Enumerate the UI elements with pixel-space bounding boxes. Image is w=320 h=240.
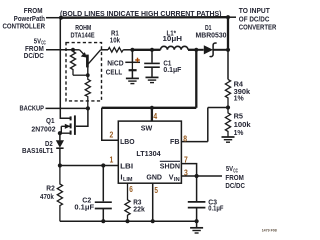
- wire FB riser: [207, 108, 209, 142]
- wire drain drop from top rail to Q1: [60, 18, 70, 119]
- transistor Q DTA144E PNP: [73, 50, 101, 75]
- inductor L1: [161, 46, 189, 49]
- capacitor C1: [144, 50, 160, 77]
- label + battery polarity: [135, 58, 140, 63]
- diode D2: [56, 133, 64, 165]
- node base junction: [86, 73, 90, 77]
- svg-text:0.1μF: 0.1μF: [74, 202, 94, 211]
- wire LBO riser: [102, 108, 119, 140]
- node junction top-left: [59, 16, 63, 20]
- wire pin3 VIN: [181, 175, 222, 177]
- wire bottom rail: [60, 220, 197, 222]
- wire pin5 GND drop: [152, 183, 154, 221]
- svg-text:LBO: LBO: [120, 137, 135, 146]
- node BACKUP junction: [86, 106, 90, 110]
- wire rail to R4: [227, 50, 229, 80]
- capacitor C2: [95, 166, 112, 222]
- svg-text:0.1μF: 0.1μF: [163, 65, 181, 74]
- diode D1 schottky: [196, 43, 228, 57]
- svg-text:DC/DC: DC/DC: [24, 51, 44, 60]
- node C3 bottom / rail end: [195, 219, 199, 223]
- wire 5Vcc line into dashed box: [46, 49, 73, 51]
- svg-text:1%: 1%: [234, 128, 244, 137]
- node C2 top junction: [101, 163, 105, 167]
- resistor R1: [108, 48, 123, 53]
- node C1 top: [150, 48, 154, 52]
- svg-text:GND: GND: [146, 173, 162, 182]
- wire FB pin8: [181, 141, 207, 143]
- svg-text:LIM: LIM: [123, 177, 133, 183]
- svg-text:MBR0530: MBR0530: [196, 31, 227, 40]
- svg-text:DTA144E: DTA144E: [71, 31, 95, 40]
- svg-text:CONTROLLER: CONTROLLER: [3, 22, 46, 31]
- svg-text:NiCD: NiCD: [107, 59, 124, 68]
- svg-text:4: 4: [153, 111, 157, 121]
- svg-text:2N7002: 2N7002: [31, 125, 55, 134]
- node Q1 source junction: [58, 131, 62, 135]
- svg-text:IN: IN: [174, 177, 180, 183]
- transistor U-dashedbox DTA144E: [66, 43, 102, 101]
- svg-text:10k: 10k: [110, 36, 121, 45]
- svg-text:0.1μF: 0.1μF: [208, 203, 224, 212]
- node D1 output junction: [226, 48, 230, 52]
- svg-text:5V: 5V: [226, 164, 233, 173]
- svg-text:22k: 22k: [133, 205, 145, 214]
- wire pin7 SHDN: [181, 164, 196, 176]
- wire R1 to battery node: [123, 49, 132, 51]
- capacitor C3: [188, 176, 206, 221]
- node battery top: [130, 48, 134, 52]
- wire PowerPath stub: [46, 17, 61, 19]
- wire stub to DC/DC input: [228, 16, 236, 18]
- svg-text:10μH: 10μH: [163, 34, 183, 43]
- wire FB link horizontal: [208, 107, 228, 109]
- ground C1: [146, 77, 159, 82]
- node SW/L1/D1 junction: [194, 48, 198, 52]
- resistor DTA base series (internal bottom): [85, 75, 90, 108]
- svg-text:SHDN: SHDN: [160, 161, 180, 170]
- wire collector to R1: [101, 49, 109, 51]
- svg-text:1479 F08: 1479 F08: [262, 228, 278, 233]
- svg-text:5: 5: [154, 185, 158, 195]
- svg-text:V: V: [169, 173, 174, 182]
- node C2 bottom: [101, 219, 105, 223]
- svg-text:LT1304: LT1304: [136, 149, 161, 158]
- ground R5: [222, 137, 235, 142]
- wire top rail (bold): [61, 16, 228, 19]
- svg-text:1: 1: [110, 154, 114, 164]
- resistor DTA base-emitter (internal left): [70, 52, 75, 76]
- node SW pin4 junction: [150, 106, 154, 110]
- svg-text:LBI: LBI: [120, 161, 133, 170]
- wire right rail top (bold): [227, 17, 229, 50]
- svg-text:8: 8: [183, 133, 187, 143]
- node junction top-right: [226, 15, 230, 19]
- node pin5 bottom: [151, 219, 155, 223]
- battery BT NiCd cell: [125, 50, 140, 78]
- wire C1 node to L1 (bold): [152, 49, 161, 51]
- wire SW horizontal (bold): [102, 107, 197, 109]
- svg-text:6: 6: [129, 184, 133, 194]
- wire gate link: [76, 108, 88, 126]
- svg-text:CELL: CELL: [106, 67, 123, 76]
- node R4/R5 junction: [226, 105, 230, 109]
- wire pin4 drop (bold): [151, 108, 153, 121]
- wire LBI line: [60, 165, 118, 167]
- wire BACKUP: [46, 107, 88, 109]
- wire riser SW node (bold): [195, 50, 197, 108]
- svg-text:2: 2: [110, 129, 114, 139]
- resistor R5: [225, 108, 230, 137]
- svg-text:FB: FB: [170, 137, 180, 146]
- resistor R4: [225, 79, 230, 107]
- IC U1 LT1304 box: [118, 121, 181, 183]
- svg-text:1%: 1%: [234, 94, 244, 103]
- transistor Q1 2N7002: [60, 115, 75, 134]
- svg-text:DC/DC: DC/DC: [225, 181, 245, 190]
- svg-text:470k: 470k: [40, 192, 54, 201]
- ground bottom rail: [190, 221, 203, 233]
- wire L1 to D1 node (bold): [188, 49, 196, 51]
- node emitter junction: [71, 48, 75, 52]
- svg-text:BAS16LT1: BAS16LT1: [22, 146, 53, 155]
- svg-text:SW: SW: [141, 124, 153, 133]
- svg-text:CONVERTER: CONVERTER: [239, 23, 277, 32]
- resistor R3: [125, 183, 130, 221]
- node pin3/C3 junction: [195, 174, 199, 178]
- node R3 bottom: [125, 219, 129, 223]
- wire base link: [73, 74, 88, 76]
- node D2/R2/LBI junction: [58, 163, 62, 167]
- resistor R2: [57, 166, 62, 222]
- ground battery: [126, 78, 139, 83]
- svg-text:BACKUP: BACKUP: [20, 104, 45, 113]
- wire battery to C1 node (bold): [132, 49, 152, 51]
